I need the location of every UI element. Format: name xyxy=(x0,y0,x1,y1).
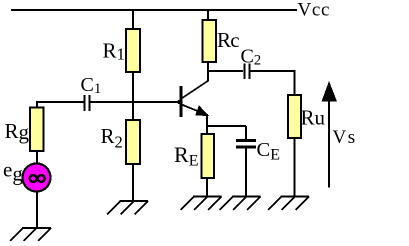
wire Rc to collector xyxy=(207,62,209,81)
capacitor C1 xyxy=(85,95,90,111)
svg-text:Ru: Ru xyxy=(301,106,326,130)
wire C2 to Ru column xyxy=(251,70,296,72)
svg-text:eg: eg xyxy=(3,158,23,186)
source eg (AC generator) xyxy=(23,164,51,192)
capacitor CE xyxy=(236,141,256,148)
collector diagonal xyxy=(182,81,209,99)
wire collector to C2 xyxy=(208,70,243,72)
svg-text:C2: C2 xyxy=(241,46,262,69)
wire Rg to source xyxy=(36,151,38,164)
resistor Ru xyxy=(288,95,301,138)
svg-text:Vs: Vs xyxy=(333,127,357,148)
capacitor C2 xyxy=(245,64,250,80)
svg-text:Rc: Rc xyxy=(217,28,239,52)
wire Ru column xyxy=(294,71,296,96)
node base junction dot xyxy=(177,100,181,104)
wire base wire left of C1 xyxy=(37,101,84,103)
wire source to ground xyxy=(36,191,38,228)
wire Ru to ground xyxy=(294,138,296,197)
wire base wire right of C1 xyxy=(91,101,182,103)
wire Vcc rail xyxy=(11,9,297,11)
wire CE top lead xyxy=(245,126,247,140)
svg-text:Rg: Rg xyxy=(5,119,30,144)
wire R1 to R2 xyxy=(132,72,134,121)
ground below R2 xyxy=(107,201,148,215)
wire R1 column top xyxy=(132,9,134,30)
wire RE to ground xyxy=(206,178,208,197)
ground below RE xyxy=(181,197,222,211)
wire Rc top lead xyxy=(207,9,209,21)
transistor Q1 xyxy=(181,81,209,118)
svg-text:CE: CE xyxy=(257,139,280,163)
base bar xyxy=(180,86,183,117)
svg-text:Vcc: Vcc xyxy=(298,0,331,21)
emitter diagonal xyxy=(182,105,201,113)
resistor Rc xyxy=(203,20,217,62)
resistor RE xyxy=(202,134,215,178)
svg-text:R1: R1 xyxy=(103,39,126,64)
wire emitter branch to CE xyxy=(207,125,246,127)
node Vs output arrow xyxy=(322,81,338,188)
resistor R2 xyxy=(126,120,140,164)
svg-text:RE: RE xyxy=(174,142,198,169)
emitter arrowhead xyxy=(195,105,209,116)
svg-text:R2: R2 xyxy=(101,124,123,152)
wire R2 to ground xyxy=(132,164,134,201)
wire CE to ground xyxy=(245,147,247,197)
ground below eg xyxy=(10,228,51,241)
wire Rg top lead xyxy=(36,101,38,108)
resistor Rg xyxy=(30,108,44,152)
ground below Ru xyxy=(268,197,309,211)
ground below CE xyxy=(220,197,261,211)
resistor R1 xyxy=(126,29,140,72)
wire emitter vertical xyxy=(206,114,208,135)
svg-text:C1: C1 xyxy=(81,74,102,97)
